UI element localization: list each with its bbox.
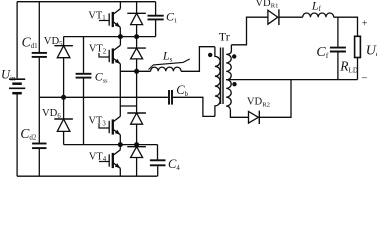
svg-text:−: − [361, 73, 367, 85]
label Tr [219, 30, 230, 44]
wire junction rail 2 [64, 144, 158, 146]
label VT3 [89, 116, 107, 128]
wire Cf bottom lead [337, 52, 339, 79]
capacitor Cd2 [32, 144, 46, 149]
label Cd1 [22, 34, 39, 50]
wire junction rail 1 [64, 36, 156, 38]
transistor VT3 [99, 116, 121, 135]
diode VD5 [54, 46, 73, 58]
label RLD [339, 59, 358, 75]
transistor VT1 [99, 9, 121, 28]
node secondary upper polarity dot [232, 54, 236, 58]
wire D2 anode to phase rail [136, 59, 138, 71]
capacitor Cd1 [32, 53, 47, 57]
wire C1 top lead [155, 2, 157, 15]
wire VDR2 cathode riser [259, 80, 291, 118]
label Cf [316, 45, 328, 60]
wire Cd rail top [38, 2, 40, 52]
label Uo [366, 44, 377, 59]
node rail2-VT dot [118, 142, 123, 147]
wire phase column D side [136, 71, 138, 113]
svg-text:Tr: Tr [219, 30, 230, 44]
wire C1 bottom lead [155, 20, 157, 36]
wire D4 cathode lead [136, 145, 138, 147]
wire D1 cathode lead [136, 2, 138, 14]
wire C4 bottom lead [157, 166, 159, 176]
wire node M to VD6 [63, 97, 65, 119]
transformer secondary winding lower [226, 80, 231, 110]
wire VD6 anode down to rail2 [63, 131, 65, 144]
svg-text:Uo: Uo [366, 44, 377, 59]
diode D2 [127, 48, 146, 59]
diode D1 [127, 13, 146, 24]
label Cd2 [20, 126, 37, 142]
wire Css top lead [83, 37, 85, 73]
capacitor Css [76, 74, 92, 78]
svg-text:+: + [362, 19, 368, 30]
wire VT3-D3 connector [120, 105, 136, 107]
wire centre tap / output return rail [226, 79, 357, 81]
inductor Ls [151, 67, 181, 71]
wire bottom rail [17, 175, 158, 177]
wire phase column VT side [119, 71, 121, 116]
node rail2-D dot [134, 142, 139, 147]
label VT4 [89, 151, 107, 163]
label VT2 [89, 44, 107, 56]
wire Css bottom lead [83, 79, 85, 145]
wire VT3 emitter to rail2 [119, 135, 121, 145]
wire VT2 emitter to phase rail [119, 64, 121, 72]
label Lf [311, 0, 322, 13]
wire Cd rail middle [38, 58, 40, 143]
wire D3 anode to rail2 [136, 124, 138, 144]
transistor VT2 [99, 45, 121, 64]
label VD6 [42, 108, 61, 120]
wire mid rail M to Cb [39, 96, 168, 98]
wire secondary top lead [231, 17, 268, 45]
node primary polarity dot [208, 53, 212, 57]
diode D3 [127, 113, 146, 124]
transistor VT4 [99, 150, 121, 169]
transformer primary winding [215, 47, 220, 117]
wire D4 anode to bottom rail [136, 158, 138, 177]
wire Ls to transformer [181, 47, 215, 72]
label plus [362, 19, 368, 30]
wire secondary bottom lead [230, 110, 248, 117]
diode D4 [127, 147, 146, 158]
wire top rail [17, 1, 156, 3]
capacitor C1 [148, 16, 164, 20]
wire VT4 collector [119, 145, 121, 150]
transformer secondary winding upper [226, 45, 231, 80]
wire RLD bottom lead [357, 58, 359, 80]
wire left rail (battery top lead) [16, 2, 18, 79]
capacitor Cb [169, 90, 172, 105]
wire VT2 collector [119, 37, 121, 45]
wire Cd rail bottom [38, 149, 40, 176]
label C4 [168, 157, 180, 172]
transformer core [221, 48, 224, 105]
label VDR2 [247, 97, 270, 109]
wire VT1 collector [119, 2, 121, 9]
battery U_in [9, 79, 25, 93]
label Cb [176, 83, 188, 98]
label minus [361, 73, 367, 85]
wire Cb to transformer [173, 97, 215, 116]
wire phase rail [120, 70, 150, 72]
node secondary lower polarity dot [232, 82, 236, 86]
wire VD5 anode to node M [63, 58, 65, 98]
diode VDR2 [249, 111, 260, 124]
wire Ls core line [149, 59, 190, 70]
diode VDR1 [268, 9, 279, 25]
diode VD6 [54, 119, 73, 131]
label Ls [162, 49, 173, 64]
wire VDR1 cathode to Lf [279, 16, 303, 18]
wire C4 top lead [157, 145, 159, 160]
wire Cf top lead [337, 17, 339, 47]
node phase dot [134, 69, 139, 74]
label U_in [1, 68, 16, 83]
label VD5 [44, 36, 63, 48]
wire VT1 emitter to rail1 [119, 27, 121, 36]
node rail1-VT dot [118, 34, 123, 39]
label Css [95, 70, 108, 85]
wire battery bottom lead [16, 94, 18, 176]
wire VT4 emitter to bottom rail [119, 168, 121, 176]
wire VD5 top lead [63, 37, 65, 46]
inductor Lf [303, 13, 334, 17]
wire D1 anode to rail1 [136, 25, 138, 37]
label VT1 [88, 10, 105, 22]
label C1 [166, 10, 177, 25]
wire D2 cathode lead [136, 37, 138, 49]
capacitor C4 [150, 160, 166, 165]
wire Lf to right rail [334, 17, 358, 36]
node M junction dot [61, 95, 66, 100]
capacitor Cf [330, 48, 346, 52]
resistor RLD [355, 36, 361, 57]
label VDR1 [255, 0, 278, 10]
node rail1-D dot [134, 34, 139, 39]
